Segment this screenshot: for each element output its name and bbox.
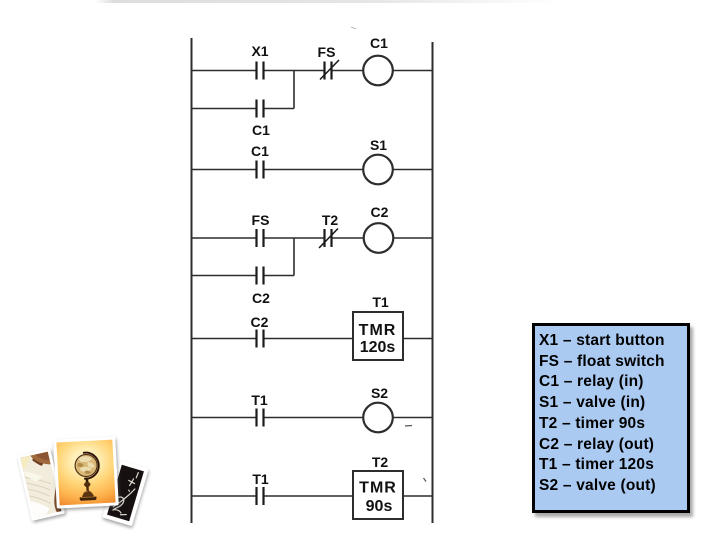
svg-text:C1: C1 bbox=[251, 143, 269, 159]
svg-text:T2: T2 bbox=[322, 212, 339, 228]
svg-text:TMR: TMR bbox=[359, 480, 397, 497]
svg-text:T2: T2 bbox=[372, 454, 389, 470]
svg-text:C2: C2 bbox=[252, 290, 270, 306]
svg-text:TMR: TMR bbox=[359, 322, 397, 339]
svg-text:C1: C1 bbox=[252, 122, 270, 138]
svg-text:FS: FS bbox=[252, 212, 270, 228]
svg-text:X1: X1 bbox=[251, 43, 268, 59]
svg-text:C2: C2 bbox=[251, 314, 269, 330]
svg-text:C2: C2 bbox=[371, 204, 389, 220]
svg-text:C1: C1 bbox=[370, 35, 388, 51]
svg-text:90s: 90s bbox=[366, 498, 393, 515]
svg-text:FS: FS bbox=[318, 44, 336, 60]
svg-text:S1: S1 bbox=[370, 137, 387, 153]
svg-text:T1: T1 bbox=[252, 471, 269, 487]
svg-text:T1: T1 bbox=[372, 294, 389, 310]
svg-text:120s: 120s bbox=[360, 339, 396, 356]
svg-text:S2: S2 bbox=[371, 385, 388, 401]
svg-text:T1: T1 bbox=[251, 392, 268, 408]
